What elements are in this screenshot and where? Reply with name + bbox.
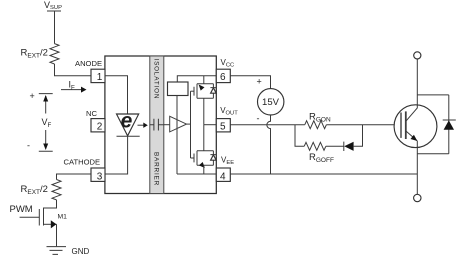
svg-text:VOUT: VOUT [220, 106, 238, 117]
resistor R_EXT/2 (bottom) [52, 180, 61, 200]
transistor Q1 arrow [199, 85, 205, 91]
svg-text:REXT/2: REXT/2 [21, 48, 48, 60]
svg-text:ISOLATION: ISOLATION [152, 59, 159, 100]
transistor Q2 arrow [199, 162, 205, 168]
svg-text:e: e [121, 110, 133, 133]
wire VEE rail inside package [177, 173, 216, 175]
wire D2 to RGON node [354, 125, 363, 147]
transistor Q2 source lead to VEE [203, 165, 205, 174]
transistor Q2 gate bar [193, 154, 195, 163]
VF bottom dimension bar and down arrow [39, 130, 53, 151]
wire block to VEE rail [176, 96, 178, 175]
gate drive bus wire [190, 91, 192, 158]
IGBT Q3 emitter branch [406, 131, 417, 194]
diode D2 (turn-off diode) [343, 142, 345, 151]
wire R1 to ANODE pin 1 [55, 64, 92, 76]
wire pin 5 to gate resistors with hop over supply wire [230, 124, 304, 126]
transistor Q2 body diode [210, 151, 216, 166]
svg-text:+: + [257, 77, 262, 87]
transistor Q1 rails [197, 84, 213, 99]
ground symbol [47, 247, 67, 255]
UVLO block [168, 82, 189, 96]
pin 1 box [91, 69, 105, 82]
pin 4 box [216, 168, 230, 181]
op-amp U1 package outline [105, 56, 216, 194]
wire VCC rail inside package [177, 76, 216, 82]
resistor RGON [305, 121, 327, 129]
svg-text:GND: GND [72, 247, 90, 256]
resistor RGOFF [304, 142, 326, 150]
wire VEE rail pin 4 to emitter [230, 173, 417, 175]
LED emission arrow [138, 124, 144, 126]
svg-text:M1: M1 [58, 213, 68, 220]
svg-text:4: 4 [220, 171, 226, 182]
emitter terminal [414, 194, 421, 201]
transistor Q1 body diode [210, 84, 216, 99]
transistor Q1 drain lead to VOUT [203, 98, 205, 124]
transistor Q2 drain lead to VOUT [203, 125, 205, 151]
LED cathode bar [117, 135, 140, 137]
svg-text:-: - [257, 114, 260, 124]
svg-text:RGOFF: RGOFF [309, 152, 334, 164]
wire pin 1 to LED anode [105, 76, 128, 114]
transistor Q2 channel bar [196, 151, 198, 166]
wire VOUT stub to pin 5 [204, 124, 217, 126]
wire VSUP to R1 [54, 11, 56, 44]
wire RGOFF to diode D2 [326, 145, 344, 147]
voltage source 15V [258, 89, 284, 115]
svg-text:REXT/2: REXT/2 [21, 184, 48, 196]
svg-text:RGON: RGON [309, 111, 331, 123]
wire RGON to IGBT gate [326, 124, 401, 126]
pin 3 box [91, 168, 105, 181]
transistor Q1 channel bar [196, 84, 198, 99]
freewheel diode D3 cathode bar [443, 119, 456, 121]
wire LED cathode to pin 3 [105, 136, 128, 174]
transistor Q1 gate bar [193, 87, 195, 96]
pin 6 box [216, 69, 230, 82]
VF top dimension bar and up arrow [39, 94, 53, 114]
svg-text:1: 1 [97, 72, 103, 83]
current IF arrow [61, 89, 82, 91]
wire pin 6 to 15V supply [230, 76, 270, 89]
svg-text:6: 6 [220, 72, 226, 83]
svg-text:-: - [27, 141, 30, 151]
transistor Q2 rails [197, 151, 213, 166]
IGBT Q3 emitter arrow [411, 135, 418, 141]
wire 15V minus to VEE rail [267, 115, 271, 174]
freewheel diode D3 lead [448, 95, 450, 154]
transistor M1 source stub and arrow [44, 223, 57, 225]
wire CATHODE pin 3 to R2 [57, 174, 92, 180]
transistor M1 gate bar [38, 209, 40, 226]
transistor M1 gate wire [20, 216, 40, 218]
IGBT Q3 circle [394, 105, 437, 148]
wire RGOFF branch down [295, 125, 304, 147]
svg-text:+: + [30, 91, 35, 101]
transistor Q2 (pull-down FET) gate lead [191, 157, 195, 159]
svg-text:VF: VF [42, 117, 52, 129]
svg-text:CATHODE: CATHODE [64, 158, 101, 167]
LED emitter diode [117, 114, 139, 136]
IGBT Q3 gate bar [400, 113, 402, 138]
isolation barrier bar [150, 56, 164, 194]
svg-text:BARRIER: BARRIER [152, 152, 159, 186]
freewheel diode D3 [444, 120, 454, 129]
svg-text:PWM: PWM [10, 204, 33, 215]
VSUP terminal bar [47, 10, 61, 12]
collector terminal [414, 52, 421, 59]
svg-text:ANODE: ANODE [75, 59, 102, 68]
svg-text:VEE: VEE [221, 155, 234, 166]
resistor R_EXT/2 (top) [50, 44, 59, 64]
IGBT Q3 body bar [405, 111, 407, 139]
pin 5 box [216, 119, 230, 132]
svg-text:2: 2 [97, 122, 103, 133]
coupling capacitor C1 [150, 119, 164, 131]
transistor M1 channel bar [43, 208, 45, 226]
svg-text:3: 3 [97, 171, 103, 182]
wire M1 source to GND [56, 224, 58, 246]
transistor Q1 source lead to VCC [203, 76, 205, 84]
svg-text:15V: 15V [262, 97, 280, 108]
transistor Q1 (pull-up FET) gate lead [191, 90, 195, 92]
svg-text:5: 5 [220, 122, 226, 133]
pin 2 box [91, 119, 105, 132]
wire R2 to M1 drain [44, 200, 57, 208]
IGBT Q3 collector branch [406, 59, 417, 121]
receiver amplifier [164, 124, 170, 126]
wire collector to freewheel diode [417, 94, 449, 96]
wire emitter to freewheel diode [417, 153, 449, 155]
svg-text:NC: NC [86, 109, 97, 118]
svg-text:VSUP: VSUP [44, 0, 62, 11]
svg-text:VCC: VCC [221, 58, 235, 69]
